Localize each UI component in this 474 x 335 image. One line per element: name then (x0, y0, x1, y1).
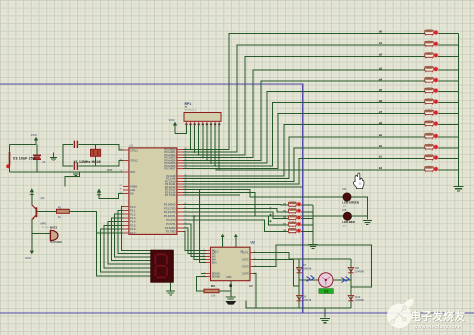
wire reset loop (10, 145, 38, 173)
pin P0.4 (177, 159, 183, 161)
capacitor C1 (74, 141, 77, 148)
resistor R11 (426, 53, 433, 59)
svg-text:VCC: VCC (25, 256, 32, 260)
svg-text:2SC945: 2SC945 (42, 227, 51, 229)
pin P1.3 (123, 217, 129, 219)
diode D8 (348, 267, 353, 271)
wire LED cathode rail (458, 34, 460, 187)
resistor R14 (426, 88, 433, 94)
probe arrows (blue) (307, 276, 315, 282)
svg-text:OUT2: OUT2 (242, 258, 249, 261)
svg-text:LED-RED: LED-RED (342, 220, 354, 224)
pin P2.2 (177, 180, 183, 182)
wire net row 7 (183, 103, 425, 166)
wire P2.7 stub (183, 194, 240, 196)
wire P3.3 to LED row (183, 216, 288, 225)
pin P2.1 (177, 178, 183, 180)
LED D21 (434, 145, 438, 149)
wire net row 5 (183, 81, 425, 160)
svg-text:www.elecfans.com: www.elecfans.com (413, 324, 461, 329)
wire RP1 pin6 to P0.4 (206, 125, 208, 160)
sheet border bottom edge (0, 312, 474, 314)
pin U2 OUT2 (250, 258, 253, 260)
svg-text:1N4148: 1N4148 (303, 268, 312, 271)
wire P3.2 to LED row (183, 212, 288, 218)
pin P1.2 (123, 213, 129, 215)
wire bottom rail (246, 301, 299, 308)
button RESET (9, 152, 11, 165)
svg-text:U2: U2 (251, 241, 255, 245)
driver U2 L293D (211, 247, 251, 281)
motor rpm label (319, 289, 333, 294)
resistor R8 (289, 229, 295, 234)
resistor R20 (426, 155, 433, 161)
svg-text:U1: U1 (130, 144, 134, 148)
wire to D3 (183, 192, 343, 216)
7-segment display (151, 250, 174, 282)
pin P3.5 (177, 223, 183, 225)
wire R3 to gnd rail (219, 290, 231, 292)
pin U2 OUT1 (250, 251, 253, 253)
wire P1.6 to display (100, 229, 150, 272)
pin P2.5 (177, 189, 183, 191)
svg-text:XTAL2: XTAL2 (130, 159, 138, 162)
pin U2 SENSB (206, 276, 211, 278)
mouse hand cursor (353, 173, 364, 189)
wire bridge frame (299, 259, 351, 308)
wire RP1 pin5 to P0.3 (202, 125, 204, 157)
pin P2.0 (177, 175, 183, 177)
svg-text:XTAL1: XTAL1 (130, 149, 138, 152)
svg-text:D2: D2 (342, 187, 346, 191)
resistor R19 (426, 144, 433, 150)
wire P3.5 to IN3 (183, 224, 206, 257)
wire RST hook (65, 172, 80, 186)
svg-text:D10: D10 (355, 295, 360, 299)
pin PSEN (123, 185, 129, 187)
pin P0.6 (177, 165, 183, 167)
junction dots (270, 208, 272, 210)
power arrow (EA) (97, 188, 101, 192)
ground (LED rail) (454, 187, 464, 191)
svg-text:P3.1/TXD: P3.1/TXD (164, 206, 175, 210)
wire P3.4 to LED row (183, 220, 288, 232)
pin P1.7 (123, 232, 129, 234)
svg-text:10k: 10k (211, 293, 216, 297)
pin RP1 (206, 121, 208, 125)
ground (crystal) (72, 172, 80, 176)
ground (U2) (226, 297, 236, 299)
svg-text:1W: 1W (249, 285, 253, 288)
pin RP1 (210, 121, 212, 125)
svg-text:LED-GREEN: LED-GREEN (342, 201, 358, 205)
svg-text:Q1: Q1 (41, 196, 45, 200)
wire RP1 pin2 to P0.0 (190, 125, 192, 149)
svg-text:EA: EA (130, 192, 134, 195)
pin P3.7 (177, 231, 183, 233)
pin P0.5 (177, 162, 183, 164)
svg-text:VCC: VCC (169, 118, 176, 122)
wire EA to VCC arrow (99, 193, 123, 198)
pin P3.1 (177, 207, 183, 209)
resistor R18 (426, 133, 433, 139)
svg-text:0.0: 0.0 (324, 289, 329, 293)
pin RP1 (214, 121, 216, 125)
pin P1.0 (123, 206, 129, 208)
svg-text:D7: D7 (303, 263, 307, 267)
svg-text:SENSB: SENSB (212, 276, 221, 279)
wire crystal loop (63, 144, 73, 166)
wire display to ground (170, 282, 172, 290)
wire net row 6 (183, 92, 425, 164)
capacitor C2 (74, 163, 77, 170)
pin P0.7 (177, 168, 183, 170)
LED D5 (297, 209, 301, 213)
pin RP1 (190, 121, 192, 125)
svg-text:d7: d7 (379, 110, 383, 114)
pin RP1 (218, 121, 220, 125)
wire group2 cathode rail (312, 205, 314, 244)
wire RP1 pin7 to P0.5 (210, 125, 212, 163)
wire bridge to ground (324, 308, 326, 318)
svg-text:P3.6/WR: P3.6/WR (165, 226, 176, 230)
wire RP1 pin4 to P0.2 (198, 125, 200, 154)
svg-text:D8: D8 (355, 266, 359, 270)
wire net row 2 (183, 45, 425, 152)
wire net row 11 (183, 148, 425, 181)
wire tap to IN4 (194, 216, 206, 259)
pin P2.3 (177, 183, 183, 185)
pin P3.3 (177, 215, 183, 217)
svg-text:P1.0: P1.0 (130, 206, 136, 209)
svg-text:b1: b1 (379, 155, 383, 159)
svg-text:d5: d5 (379, 88, 383, 92)
wire RP1 common to VCC (175, 125, 186, 133)
pin P2.7 (177, 194, 183, 196)
svg-text:RP1: RP1 (185, 102, 192, 106)
svg-text:b0: b0 (379, 144, 383, 148)
wire net row 8 (183, 114, 425, 169)
svg-text:1N4148: 1N4148 (355, 299, 364, 302)
pin P0.1 (177, 151, 183, 153)
svg-text:P3.4/T0: P3.4/T0 (166, 218, 176, 222)
resistor R16 (426, 110, 433, 116)
pin RP1 (194, 121, 196, 125)
svg-text:1N4148: 1N4148 (355, 270, 364, 273)
pin P3.6 (177, 227, 183, 229)
wire U2 GND (230, 281, 232, 297)
wire to D2 (183, 190, 343, 198)
LED D8 (297, 229, 301, 233)
wire P3.1 to LED row (183, 208, 288, 212)
wire P2.4 stub (183, 186, 302, 188)
wire RST to chip (37, 171, 123, 173)
LED D23 (434, 167, 438, 171)
pin U2 IN2 (206, 252, 211, 254)
ground (reset) (53, 152, 55, 157)
power VS (U2) (235, 237, 237, 247)
sheet border top/right edge (0, 84, 303, 313)
motor M1 (319, 273, 333, 287)
wire P1.4 to display (108, 222, 151, 264)
pin U2 OUT3 (250, 266, 253, 268)
pin U2 ENA (206, 262, 211, 264)
wire P3.6 to IN2 (183, 228, 206, 254)
svg-text:RST: RST (108, 169, 113, 172)
wire shared column to display (97, 212, 151, 276)
svg-text:BUZ1: BUZ1 (50, 225, 58, 229)
wire P2.5 tap to ENA (199, 190, 206, 263)
pin XTAL2 (123, 159, 129, 161)
pin RST (123, 171, 129, 173)
resistor R3 (204, 289, 219, 293)
wire P1.2 to display (115, 214, 151, 257)
resistor R21 (426, 166, 433, 172)
wire P1.3 to display (111, 218, 151, 260)
wire net row 12 (183, 159, 425, 185)
resistor R5 (289, 209, 295, 214)
LED D16 (434, 88, 438, 92)
svg-text:d4: d4 (379, 77, 383, 81)
svg-text:OUT1: OUT1 (242, 251, 249, 254)
pin P3.0 (177, 203, 183, 205)
pin P1.6 (123, 228, 129, 230)
LED D12 (434, 42, 438, 46)
resistor R6 (289, 215, 295, 220)
pin P3.2 (177, 211, 183, 213)
resistor R12 (426, 67, 433, 73)
pin XTAL1 (123, 149, 129, 151)
ground (group2) (309, 245, 318, 249)
wire RP1 pin3 to P0.1 (194, 125, 196, 152)
diode D9 (297, 295, 302, 299)
resistor R4 (289, 202, 295, 207)
pin P0.3 (177, 157, 183, 159)
svg-text:P1.3: P1.3 (130, 217, 136, 220)
wire RP1 pin8 to P0.6 (214, 125, 216, 165)
pin RP1 (185, 121, 187, 125)
svg-text:a8: a8 (379, 121, 383, 125)
resistor R17 (426, 121, 433, 127)
LED D19 (434, 121, 438, 125)
wire net row 13 (183, 169, 425, 170)
diode D10 (348, 295, 353, 299)
pin P1.1 (123, 209, 129, 211)
svg-text:VCC: VCC (31, 133, 38, 137)
wire net row 10 (183, 137, 425, 179)
svg-text:RESPACK-8: RESPACK-8 (185, 108, 197, 111)
svg-text:P3.3/INT1: P3.3/INT1 (164, 214, 176, 218)
resistor R9 (426, 30, 433, 36)
wire RP1 pin9 to P0.7 (218, 125, 220, 168)
svg-text:a9: a9 (379, 133, 383, 137)
LED D14 (434, 67, 438, 71)
ground (D2/D3) (363, 220, 372, 224)
wire P3.7 to IN1 (183, 232, 206, 251)
resistor R1 (57, 209, 70, 213)
pin U2 SENSA (206, 273, 211, 275)
pin U2 IN4 (206, 258, 211, 260)
svg-text:P1.1: P1.1 (130, 210, 136, 213)
svg-text:P3.0/RXD: P3.0/RXD (164, 202, 176, 206)
capacitor C3 (36, 145, 38, 173)
LED D11 (434, 30, 438, 34)
pin U2 IN3 (206, 255, 211, 257)
resistor R7 (289, 222, 295, 227)
pin ALE (123, 189, 129, 191)
svg-text:P1.6: P1.6 (130, 228, 136, 231)
wire D2/D3 to ground (351, 197, 367, 219)
svg-text:P0.7/AD7: P0.7/AD7 (164, 167, 176, 171)
power arrow (Q1 collector) (31, 189, 33, 205)
svg-text:d3: d3 (379, 66, 383, 70)
svg-text:d6: d6 (379, 99, 383, 103)
svg-text:GND: GND (226, 276, 232, 279)
svg-text:C3 10uF 25V: C3 10uF 25V (13, 157, 36, 161)
wire net row 4 (183, 70, 425, 158)
svg-text:P3.7/RD: P3.7/RD (166, 230, 176, 234)
wire R1 to P1.7 column (69, 211, 96, 212)
svg-text:R3: R3 (211, 284, 215, 288)
wire Q1 emitter down (31, 220, 33, 247)
svg-text:OUT4: OUT4 (242, 273, 249, 276)
pin U2 IN1 (206, 249, 211, 251)
svg-text:D3: D3 (342, 208, 346, 212)
wire OUT1 route (253, 252, 299, 259)
pin P1.5 (123, 224, 129, 226)
wire SENS to R3 (197, 277, 206, 291)
LED D20 (434, 134, 438, 138)
svg-text:P3.5/T1: P3.5/T1 (166, 222, 176, 226)
svg-text:d0: d0 (379, 30, 383, 34)
wire OUT4 route (253, 274, 256, 308)
svg-text:D9: D9 (303, 294, 307, 298)
svg-text:b2: b2 (379, 166, 383, 170)
power VCC (emitter) (31, 247, 33, 251)
wire net row 9 (183, 125, 425, 176)
pin P3.4 (177, 219, 183, 221)
svg-text:SOUNDER: SOUNDER (50, 241, 62, 244)
wire P3.0 to LED row (183, 203, 288, 206)
pin P2.4 (177, 186, 183, 188)
wire P1.5 to display (104, 225, 151, 268)
LED D18 (434, 110, 438, 114)
svg-text:d2: d2 (379, 53, 383, 57)
pin U2 OUT4 (250, 273, 253, 275)
svg-text:RST: RST (130, 171, 135, 174)
wire P1.0 to display (121, 207, 151, 251)
svg-text:电子发烧友: 电子发烧友 (411, 310, 466, 323)
wire net row 1 (183, 34, 425, 150)
power VCC (U2) (222, 237, 224, 247)
svg-text:NPN: NPN (41, 221, 47, 225)
wire Q1 base to R1 (36, 210, 56, 212)
svg-text:OUT3: OUT3 (242, 266, 249, 269)
pin RP1 (202, 121, 204, 125)
pin P1.4 (123, 221, 129, 223)
svg-text:P2.7/A15: P2.7/A15 (165, 193, 176, 197)
wire P1.1 to display (118, 210, 151, 253)
wire OUT2 route (253, 259, 299, 285)
LED D13 (434, 53, 438, 57)
resistor R15 (426, 99, 433, 105)
ground (bridge) (320, 318, 330, 322)
LED D6 (297, 216, 301, 220)
pin RP1 (198, 121, 200, 125)
LED D22 (434, 155, 438, 159)
pin P0.2 (177, 154, 183, 156)
LED D15 (434, 78, 438, 82)
MCU U1 AT89C51 (129, 148, 177, 235)
LED D4 (297, 202, 301, 206)
svg-text:X1 12MHz HC49: X1 12MHz HC49 (74, 160, 101, 164)
svg-text:uF: uF (42, 160, 45, 164)
LED D17 (434, 99, 438, 103)
crystal X1 (95, 144, 97, 166)
buzzer BUZ1 (32, 233, 51, 235)
svg-text:P1.7: P1.7 (130, 232, 136, 235)
resistor R13 (426, 78, 433, 84)
svg-text:R1: R1 (58, 205, 62, 209)
svg-text:1N4148: 1N4148 (303, 299, 312, 302)
svg-text:P1.4: P1.4 (130, 221, 136, 224)
resistor R10 (426, 41, 433, 47)
wire motor taps (299, 279, 351, 281)
pin P2.6 (177, 191, 183, 193)
wire P1.7 to shared column (97, 232, 123, 234)
ground (display) (166, 291, 175, 295)
diode D7 (297, 267, 302, 271)
pin EA (123, 192, 129, 194)
watermark logo circle (387, 299, 414, 328)
svg-text:P1.2: P1.2 (130, 213, 136, 216)
LED D7 (297, 222, 301, 226)
svg-text:P1.5: P1.5 (130, 224, 136, 227)
svg-text:ENA: ENA (212, 262, 217, 265)
pin P0.0 (177, 148, 183, 150)
wire net row 3 (183, 56, 425, 155)
svg-text:P3.2/INT0: P3.2/INT0 (164, 210, 176, 214)
wire OUT3 route (253, 245, 372, 287)
svg-text:d1: d1 (379, 41, 383, 45)
resistor pack RP1 (184, 113, 221, 122)
